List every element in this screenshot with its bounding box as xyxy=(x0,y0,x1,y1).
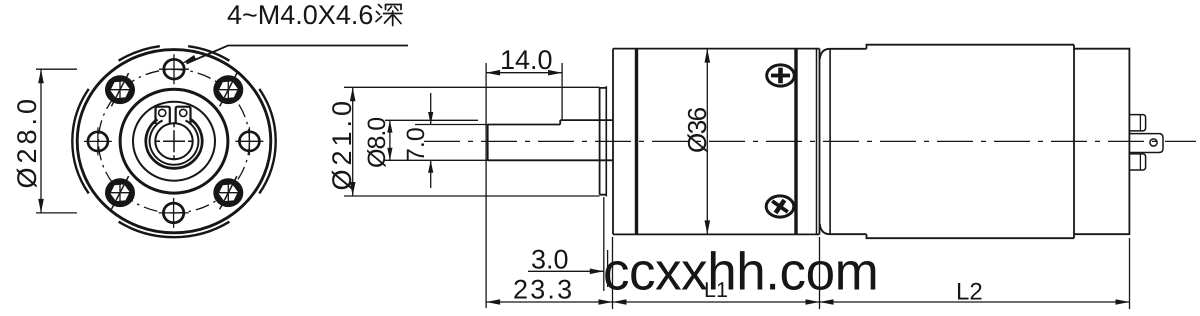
screw hole right xyxy=(235,127,263,155)
dim L2 arrows xyxy=(820,299,1130,305)
svg-text:Ø21.0: Ø21.0 xyxy=(327,97,357,191)
dim 3.0 line xyxy=(528,270,604,272)
circlip outer ring xyxy=(146,119,202,168)
svg-text:L2: L2 xyxy=(956,279,983,306)
screw hole left xyxy=(84,127,112,155)
dim L2 right extension line xyxy=(1129,238,1131,309)
terminal bottom tab fold xyxy=(1139,154,1141,170)
dim 3.0 extension lines xyxy=(604,197,608,291)
shaft circle xyxy=(155,123,192,159)
callout leader arrowhead xyxy=(182,55,197,64)
svg-text:ccxxhh.com: ccxxhh.com xyxy=(603,243,878,302)
dia8 dimension line xyxy=(389,120,391,160)
motor can top step xyxy=(867,45,1075,49)
svg-text:4~M4.0X4.6: 4~M4.0X4.6 xyxy=(227,0,373,30)
front view bolt circle (dash-dot) xyxy=(99,69,250,213)
boss front face xyxy=(599,88,601,195)
shaft center mark xyxy=(155,122,193,160)
front view boss circle xyxy=(120,89,228,193)
svg-text:Ø36: Ø36 xyxy=(682,107,712,153)
motor end cap xyxy=(1074,49,1129,235)
svg-text:Ø28.0: Ø28.0 xyxy=(12,95,42,189)
dim 23.3 arrows xyxy=(486,299,612,305)
terminal bottom tab xyxy=(1129,154,1145,170)
dim 14.0 arrows xyxy=(486,70,562,76)
shaft bottom edge xyxy=(488,159,613,161)
gearbox bottom edge xyxy=(613,233,820,235)
motor seam line xyxy=(829,49,831,234)
svg-text:7.0: 7.0 xyxy=(402,127,430,162)
callout CJK character "deep" xyxy=(376,5,402,26)
dia36 arrows xyxy=(705,49,711,235)
svg-text:3.0: 3.0 xyxy=(531,245,569,275)
dim L1 arrows xyxy=(613,299,820,305)
callout leader line xyxy=(187,46,409,64)
gearbox rear line (bold) xyxy=(794,49,797,235)
dim 7.0 line top xyxy=(430,93,432,188)
side view centerline xyxy=(424,140,1196,142)
terminal middle lug xyxy=(1129,134,1163,153)
circlip gap notch xyxy=(170,107,176,114)
screw hole top xyxy=(159,54,189,84)
dia28 arrows xyxy=(38,69,44,213)
dia21 dimension line xyxy=(352,87,354,196)
dia8 extension lines xyxy=(385,120,488,160)
dia28 dimension line xyxy=(40,69,42,213)
svg-text:Ø8.0: Ø8.0 xyxy=(363,118,391,168)
motor neck top fillet xyxy=(820,49,867,59)
hex screw bottom-right xyxy=(213,176,243,209)
dim L1 line xyxy=(613,301,820,303)
motor can bottom step xyxy=(867,234,1075,238)
dim 3.0 arrow xyxy=(590,269,604,275)
dia36 dimension line xyxy=(706,49,708,235)
dia28 extension lines xyxy=(36,69,77,213)
gearbox/motor junction line xyxy=(819,49,821,235)
dim 7.0 extension line xyxy=(415,124,488,126)
boss step line xyxy=(605,86,607,196)
terminal hole xyxy=(1150,139,1157,146)
dim 7.0 arrows xyxy=(428,112,433,173)
motor neck bottom fillet xyxy=(820,224,867,234)
circlip lug left xyxy=(156,107,170,124)
shaft tip face xyxy=(487,125,489,161)
shaft flat step xyxy=(559,120,561,124)
terminal top tab xyxy=(1129,115,1145,131)
circlip inner ring xyxy=(150,120,199,164)
svg-text:23.3: 23.3 xyxy=(513,275,574,305)
svg-text:14.0: 14.0 xyxy=(500,45,553,75)
gearbox screw bottom xyxy=(766,195,794,219)
motor can right edge xyxy=(1073,45,1075,239)
gearbox rear thin line xyxy=(816,49,818,235)
shaft top edge xyxy=(560,119,613,121)
front view outer rim arcs xyxy=(72,46,275,237)
screw hole bottom xyxy=(159,198,189,228)
dia8 arrows xyxy=(387,120,392,160)
dim 23.3 / L1 extension line xyxy=(612,237,614,309)
dia21 arrows xyxy=(350,87,356,196)
dia21 extension lines xyxy=(344,87,600,196)
gearbox ring gear front line (bold) xyxy=(635,49,638,235)
gearbox front plate left edge xyxy=(612,49,614,235)
dim 14.0 line xyxy=(486,72,562,74)
boss top edge xyxy=(600,88,607,195)
hex screw top-right xyxy=(213,73,243,106)
dim L1/L2 extension line xyxy=(819,237,821,309)
dim L2 line xyxy=(820,301,1130,303)
circlip lug right xyxy=(176,107,191,124)
dim 23.3 line xyxy=(486,301,612,303)
hex screw bottom-left xyxy=(105,176,135,209)
hex screw top-left xyxy=(105,73,135,106)
front view inner boss circle xyxy=(133,102,215,181)
terminal top tab fold xyxy=(1139,115,1141,131)
front view flange circle xyxy=(77,50,271,233)
gearbox top edge xyxy=(613,48,820,50)
gearbox screw top xyxy=(767,65,795,86)
dim 14.0 extension lines xyxy=(486,63,562,308)
shaft flat top edge xyxy=(488,124,561,126)
